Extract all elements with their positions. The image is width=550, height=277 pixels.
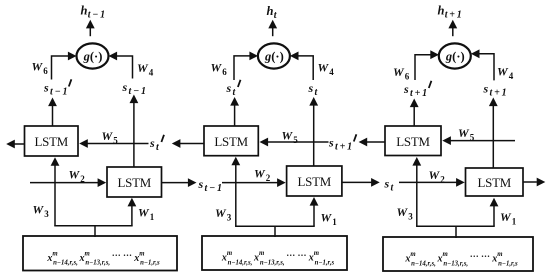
svg-text:LSTM: LSTM (34, 135, 68, 149)
output label h_t (267, 4, 278, 21)
backward LSTM block U3b (cell t+1) (385, 126, 441, 156)
svg-text:W: W (397, 205, 409, 219)
weight label W4 (cell t) (318, 61, 335, 77)
wire: recurrent backward input into upper LSTM (cell t-1) (79, 139, 148, 148)
wire: s_t-1 forward link from cell t-1 to cell t (161, 178, 286, 187)
wire: input box top tee (cell t-1) (54, 226, 132, 237)
svg-text:3: 3 (44, 209, 49, 219)
svg-text:W: W (138, 206, 150, 220)
forward LSTM block U2f (cell t) (287, 166, 342, 196)
svg-text:s: s (328, 136, 334, 150)
svg-text:LSTM: LSTM (117, 176, 151, 190)
wire: input to lower LSTM W1 branch (cell t+1) (490, 198, 499, 226)
weight label W5 (cell t+1) (458, 126, 475, 142)
wire: forward output of cell t+1 to right edge (523, 178, 545, 187)
wire: backward state s' into g with arrowhead (cell t) (234, 52, 258, 81)
svg-text:6: 6 (405, 71, 410, 81)
svg-text:4: 4 (509, 71, 514, 81)
node label s'_t+1 (403, 81, 431, 99)
svg-text:s: s (403, 82, 409, 96)
svg-text:W: W (458, 126, 470, 140)
weight label W5 (cell t) (282, 129, 299, 145)
wire: s_t' backward link from cell t to cell t-1 (172, 139, 204, 148)
svg-text:1: 1 (150, 212, 155, 222)
svg-text:s: s (308, 81, 314, 95)
svg-text:t+1: t+1 (410, 88, 429, 99)
forward LSTM block U3f (cell t+1) (466, 168, 524, 196)
weight label W1 (cell t) (321, 211, 338, 227)
svg-text:h: h (81, 4, 88, 18)
svg-text:3: 3 (408, 211, 413, 221)
svg-text:t−1: t−1 (129, 86, 148, 97)
node label s_t+1 (483, 82, 509, 99)
svg-text:t+1: t+1 (445, 9, 464, 20)
svg-text:t+1: t+1 (335, 141, 354, 152)
svg-text:t: t (233, 87, 237, 98)
combiner node g (cell t+1) (439, 43, 471, 68)
svg-text:W: W (211, 61, 223, 75)
wire: s_t forward link from cell t to cell t+1 (342, 178, 465, 187)
svg-text:6: 6 (43, 66, 48, 76)
svg-text:s: s (198, 177, 204, 191)
svg-text:W: W (137, 61, 149, 75)
weight label W3 (cell t+1) (397, 205, 414, 221)
svg-text:W: W (321, 211, 333, 225)
wire: input box top tee (cell t+1) (416, 226, 495, 238)
wire: forward input into lower LSTM (cell t-1) (30, 178, 106, 187)
node label s_t-1 link (198, 177, 224, 194)
svg-text:2: 2 (80, 174, 85, 184)
weight label W1 (cell t+1) (500, 210, 517, 226)
forward LSTM block U1f (cell t-1) (107, 167, 162, 197)
wire: recurrent backward input into upper LSTM (cell t+1) (442, 136, 515, 145)
combiner node g (cell t) (258, 43, 290, 68)
node label s'_t-1 (43, 79, 71, 97)
wire: upper LSTM output up to s' label (cell t+1) (410, 99, 419, 127)
svg-text:t−1: t−1 (205, 183, 224, 194)
wire: recurrent backward input into upper LSTM (cell t) (260, 138, 329, 147)
svg-text:1: 1 (512, 216, 517, 226)
combiner node g (cell t-1) (77, 43, 109, 68)
wire: forward state s into g with arrowhead (cell t+1) (471, 49, 494, 80)
svg-text:g(·): g(·) (264, 49, 284, 63)
wire: backward state s' into g with arrowhead (cell t+1) (415, 50, 439, 80)
svg-text:W: W (102, 129, 114, 143)
svg-text:5: 5 (293, 135, 298, 145)
svg-text:5: 5 (470, 132, 475, 142)
input vector box (cell t+1) (383, 237, 533, 271)
weight label W2 (cell t-1) (69, 168, 86, 184)
wire: forward state s into g with arrowhead (cell t) (290, 52, 313, 81)
node label s_t link (384, 177, 395, 194)
wire: input to upper LSTM W3 branch (cell t) (231, 157, 240, 227)
svg-text:t: t (274, 10, 278, 21)
weight label W4 (cell t-1) (137, 61, 154, 77)
wire: lower LSTM output up to s label (cell t) (309, 97, 318, 167)
output label h_t-1 (81, 4, 107, 21)
wire: g output to h (cell t+1) (448, 20, 457, 36)
svg-text:s: s (43, 81, 49, 95)
svg-text:s: s (122, 80, 128, 94)
svg-text:W: W (32, 60, 44, 74)
svg-text:g(·): g(·) (445, 49, 465, 63)
svg-text:W: W (318, 61, 330, 75)
svg-text:W: W (497, 65, 509, 79)
svg-text:h: h (267, 4, 274, 18)
svg-text:4: 4 (329, 67, 334, 77)
svg-text:LSTM: LSTM (396, 135, 430, 149)
weight label W6 (cell t-1) (32, 60, 49, 76)
svg-text:s: s (149, 136, 155, 150)
wire: left edge backward output of cell t-1 (6, 140, 24, 149)
output label h_t+1 (438, 4, 464, 21)
wire: backward state s' into g with arrowhead (cell t-1) (52, 52, 77, 80)
weight label W4 (cell t+1) (497, 65, 514, 81)
svg-text:LSTM: LSTM (297, 175, 331, 189)
weight label W2 (cell t+1) (429, 168, 446, 184)
wire: g output to h (cell t-1) (86, 20, 95, 36)
svg-text:W: W (215, 206, 227, 220)
weight label W6 (cell t) (211, 61, 228, 77)
svg-text:3: 3 (227, 212, 232, 222)
weight label W5 (cell t-1) (102, 129, 119, 145)
svg-text:s: s (384, 177, 390, 191)
svg-text:t: t (315, 87, 319, 98)
svg-text:2: 2 (266, 173, 271, 183)
wire: upper LSTM output up to s' label (cell t) (230, 97, 239, 127)
wire: upper LSTM output up to s' label (cell t-1) (48, 98, 57, 127)
svg-text:W: W (254, 167, 266, 181)
svg-text:W: W (282, 129, 294, 143)
svg-text:4: 4 (149, 67, 154, 77)
weight label W3 (cell t-1) (33, 203, 50, 219)
svg-text:W: W (69, 168, 81, 182)
svg-text:s: s (483, 82, 489, 96)
input vector box (cell t) (202, 236, 347, 270)
wire: input to lower LSTM W1 branch (cell t-1) (128, 198, 137, 226)
wire: forward state s into g with arrowhead (cell t-1) (109, 52, 133, 79)
svg-text:t: t (391, 182, 395, 193)
wire: input to upper LSTM W3 branch (cell t-1) (51, 157, 60, 226)
svg-text:t: t (156, 142, 160, 153)
svg-text:1: 1 (332, 217, 337, 227)
svg-text:LSTM: LSTM (214, 135, 248, 149)
backward LSTM block U1b (cell t-1) (25, 126, 79, 156)
svg-text:LSTM: LSTM (477, 176, 511, 190)
wire: lower LSTM output up to s label (cell t+1) (489, 98, 498, 169)
svg-text:h: h (438, 4, 445, 18)
node label s'_t link (149, 135, 164, 153)
node label s_t-1 (122, 80, 148, 97)
svg-text:g(·): g(·) (83, 49, 103, 63)
node label s'_t+1 link (328, 134, 356, 152)
svg-text:6: 6 (222, 67, 227, 77)
wire: s_t+1' backward link from cell t+1 to cell t (359, 138, 385, 147)
svg-text:5: 5 (113, 135, 118, 145)
node label s'_t (226, 80, 241, 98)
wire: input to lower LSTM W1 branch (cell t) (310, 197, 319, 226)
node label s_t (308, 81, 319, 98)
weight label W6 (cell t+1) (393, 65, 410, 81)
svg-text:s: s (226, 81, 232, 95)
svg-text:t−1: t−1 (88, 9, 107, 20)
svg-text:W: W (33, 203, 45, 217)
wire: lower LSTM output up to s label (cell t-1) (130, 95, 139, 168)
wire: g output to h (cell t) (268, 20, 277, 36)
svg-text:W: W (500, 210, 512, 224)
weight label W3 (cell t) (215, 206, 232, 222)
wire: input to upper LSTM W3 branch (cell t+1) (412, 157, 421, 226)
svg-text:t+1: t+1 (490, 87, 509, 98)
svg-text:t−1: t−1 (50, 86, 69, 97)
svg-text:W: W (429, 168, 441, 182)
input vector box (cell t-1) (23, 236, 177, 271)
backward LSTM block U2b (cell t) (204, 126, 258, 156)
weight label W2 (cell t) (254, 167, 271, 183)
weight label W1 (cell t-1) (138, 206, 155, 222)
svg-text:W: W (393, 65, 405, 79)
wire: input box top tee (cell t) (235, 226, 315, 237)
